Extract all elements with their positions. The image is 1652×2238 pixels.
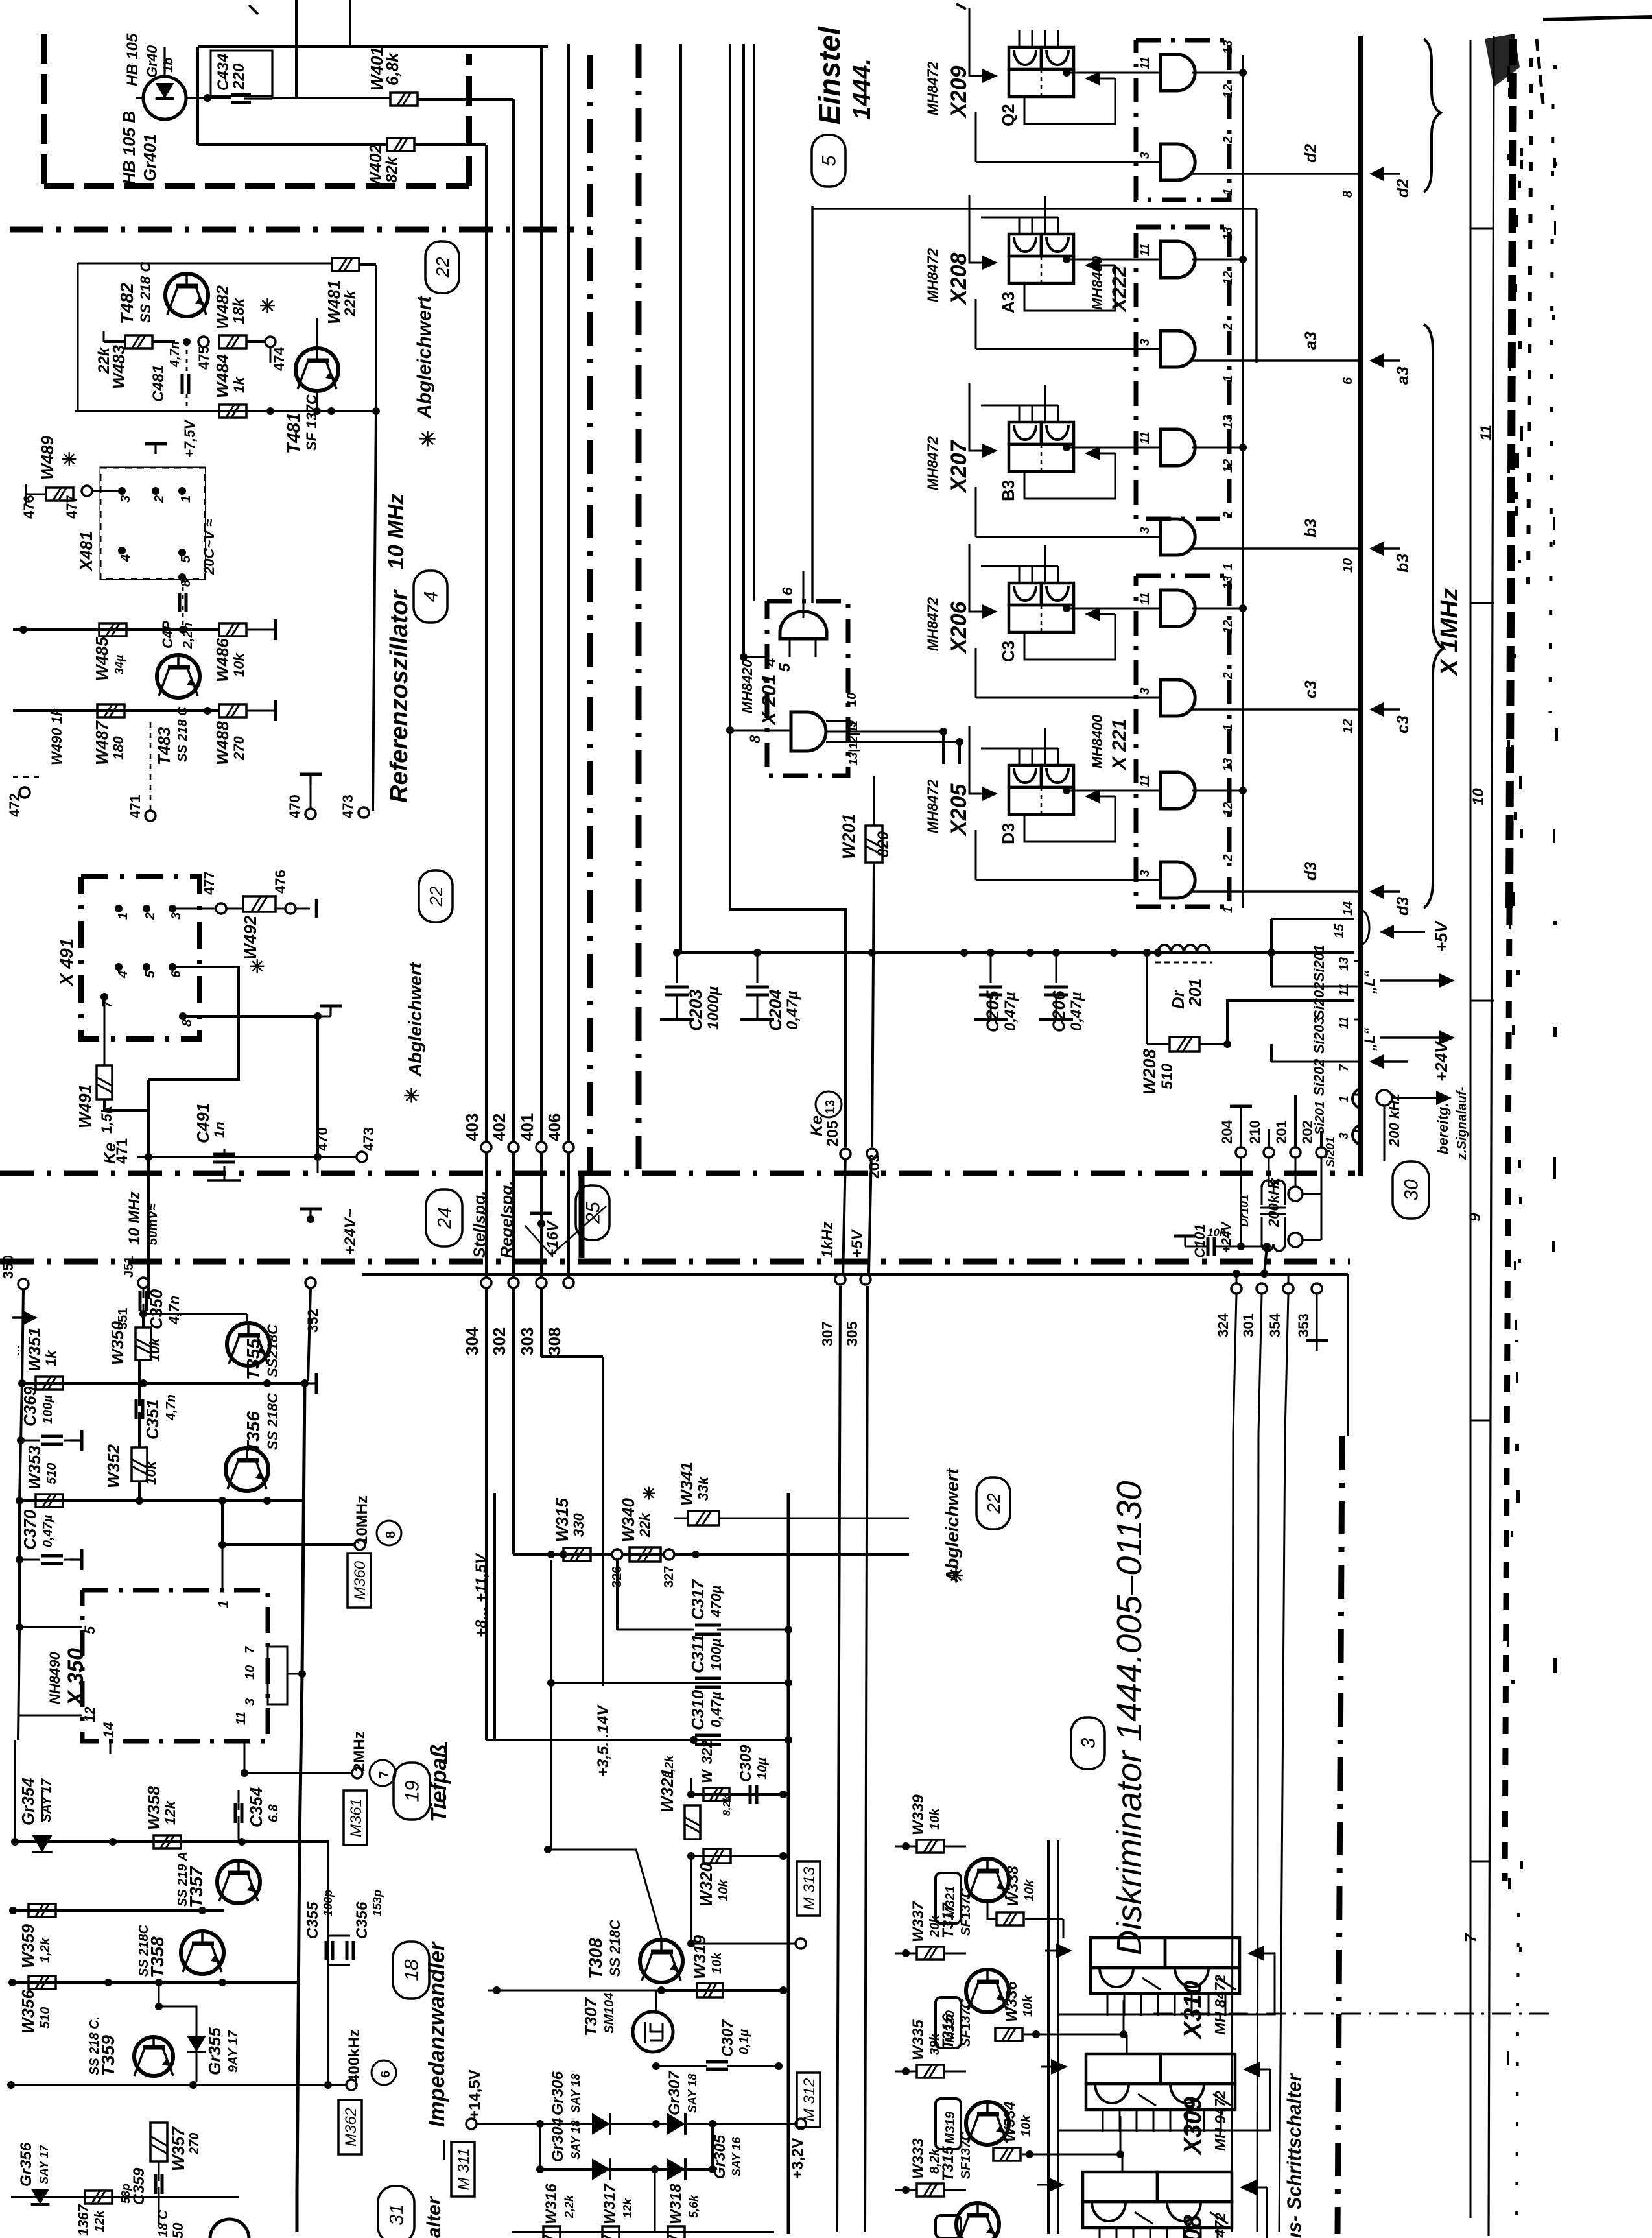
terminal 304: [462, 1278, 491, 1355]
diode Gr306: [549, 2071, 610, 2135]
svg-text:T482: T482: [117, 283, 137, 324]
svg-text:Gr401: Gr401: [140, 134, 159, 182]
label C355 100p: [304, 1890, 335, 1939]
svg-text:MH 9472: MH 9472: [1212, 2090, 1229, 2151]
resistor W318: [667, 2184, 700, 2238]
svg-text:82k: 82k: [383, 156, 401, 183]
resistor W319: [697, 1983, 723, 1997]
svg-text:SS 218 C: SS 218 C: [137, 261, 154, 323]
svg-text:W485: W485: [92, 637, 112, 681]
svg-text:M362: M362: [342, 2108, 360, 2147]
frame tick a: [1470, 228, 1494, 230]
svg-text:3: 3: [243, 1698, 257, 1706]
svg-text:10k: 10k: [1022, 1879, 1037, 1901]
wire 10MHz riser: [147, 1080, 150, 1299]
svg-text:Gr355: Gr355: [205, 2027, 224, 2075]
svg-text:353: 353: [1295, 1313, 1312, 1337]
svg-text:205: 205: [824, 1121, 842, 1147]
resistor W489: [26, 484, 73, 505]
bus wire W201/203/305: [865, 776, 874, 2232]
label T482 SS218C: [117, 261, 154, 324]
wire vertical x305: [196, 47, 199, 145]
svg-text:19: 19: [402, 1780, 423, 1802]
arrow b3: [1369, 542, 1412, 573]
wire +8V riser: [493, 1493, 496, 1740]
svg-text:0,47µ: 0,47µ: [41, 1514, 55, 1547]
svg-text:+5V: +5V: [849, 1229, 866, 1258]
svg-text:W316: W316: [543, 2184, 560, 2224]
svg-text:301: 301: [1240, 1313, 1257, 1337]
gate pair unit c3: [976, 575, 1360, 733]
svg-text:bereitg.: bereitg.: [1435, 1103, 1451, 1154]
svg-text:J51: J51: [122, 1256, 136, 1278]
svg-text:X 201: X 201: [759, 674, 780, 726]
svg-text:X207: X207: [947, 440, 971, 494]
svg-text:C307: C307: [719, 2019, 737, 2057]
oval 22 bottom: [976, 1477, 1010, 1529]
svg-text:NH8490: NH8490: [47, 1652, 63, 1704]
svg-text:30: 30: [1401, 1179, 1422, 1201]
capacitor C355: [313, 1941, 333, 1982]
svg-text:X209: X209: [947, 66, 971, 119]
svg-text:10: 10: [845, 693, 859, 707]
terminal 401: [517, 1113, 547, 1152]
svg-text:303: 303: [517, 1327, 537, 1355]
svg-text:33k: 33k: [695, 1476, 711, 1501]
resistor W356: [29, 1976, 56, 1989]
Einstell box lines: [812, 206, 1257, 603]
label 472: [6, 777, 39, 817]
label MH8400 X221: [1089, 714, 1130, 771]
svg-text:22: 22: [432, 257, 453, 278]
svg-text:4: 4: [421, 591, 442, 602]
svg-text:8: 8: [1341, 190, 1355, 198]
+5V rail: [673, 949, 1354, 957]
ground right of W486: [246, 619, 276, 640]
flip-flop X209: [925, 8, 1115, 126]
svg-text:+24V: +24V: [1220, 1221, 1234, 1253]
resistor W333: [895, 2184, 966, 2196]
label Ke 471 mid: [100, 1138, 131, 1164]
label W341 33k: [677, 1462, 711, 1506]
arrow d3: [1369, 885, 1412, 916]
label 10MHz vert: [126, 1191, 160, 1245]
svg-text:HB 105 B: HB 105 B: [119, 111, 139, 185]
label X491: [56, 938, 77, 987]
capacitor C101: [1174, 1236, 1271, 1256]
svg-text:MH8472: MH8472: [925, 248, 941, 302]
svg-text:1n: 1n: [211, 1121, 228, 1138]
svg-text:0,1µ: 0,1µ: [737, 2029, 751, 2054]
frame tick d: [1470, 1420, 1491, 1422]
IC X350 box (dash-dot): [82, 1590, 268, 1741]
svg-text:307: 307: [819, 1322, 836, 1346]
svg-text:MH8420: MH8420: [739, 659, 755, 713]
svg-text:470µ: 470µ: [708, 1585, 724, 1618]
svg-text:...: ...: [8, 1344, 23, 1355]
capacitor C204: [740, 953, 774, 1019]
svg-text:10k: 10k: [928, 1808, 942, 1830]
svg-text:210: 210: [1247, 1120, 1263, 1144]
svg-text:MH8472: MH8472: [925, 61, 941, 115]
svg-text:d2: d2: [1394, 179, 1412, 198]
wire rail 3215: [7, 2081, 332, 2089]
label W356 510: [18, 1990, 53, 2034]
stub 7 +24V: [1271, 1044, 1360, 1071]
svg-text:C317: C317: [688, 1578, 707, 1620]
label W482 18k: [213, 285, 248, 329]
wire to top edge a: [295, 0, 298, 99]
svg-text:10k: 10k: [231, 652, 247, 677]
wire C434 to W401: [272, 51, 390, 98]
svg-text:2,2k: 2,2k: [563, 2195, 576, 2219]
terminal 473: [340, 794, 369, 818]
svg-text:M361: M361: [348, 1798, 365, 1837]
wire T307 drain: [655, 1990, 657, 2012]
terminal 402: [490, 1113, 519, 1152]
wire X201 out to X205: [848, 728, 963, 764]
svg-text:C491: C491: [193, 1103, 213, 1143]
label +7,5V: [182, 419, 198, 458]
svg-text:W: W: [699, 1768, 715, 1783]
capacitor C351: [136, 1360, 143, 1447]
svg-text:X205: X205: [947, 783, 971, 837]
frame line right inner: [1470, 40, 1472, 2218]
stub 11b: [1311, 1016, 1360, 1054]
label W492: [241, 916, 265, 977]
label +3,5..14V: [595, 1704, 612, 1777]
wire 202: [1299, 1120, 1327, 1194]
wire 354 down: [1279, 1433, 1285, 2232]
svg-text:402: 402: [490, 1113, 509, 1141]
svg-text:20C~V ≈: 20C~V ≈: [201, 519, 217, 575]
svg-text:SS218C: SS218C: [265, 1324, 281, 1377]
jack Si201: [1313, 1101, 1384, 1161]
svg-text:8: 8: [180, 1019, 195, 1027]
svg-text:a3: a3: [1302, 331, 1320, 350]
svg-text:10k: 10k: [1021, 1995, 1035, 2017]
label 20C~V: [201, 519, 217, 575]
svg-text:4,7n: 4,7n: [168, 341, 182, 368]
svg-text:12: 12: [1341, 719, 1355, 733]
label Gr354 SAY17: [18, 1778, 54, 1826]
oval 18: [393, 1942, 429, 1999]
stub 13 Si201: [1311, 945, 1360, 982]
svg-text:SAY 17: SAY 17: [40, 1778, 54, 1822]
wire W322 rail: [687, 1791, 787, 1798]
label C481 4,7n: [150, 341, 182, 402]
svg-text:3: 3: [1139, 870, 1152, 877]
label +8...+11,5V: [473, 1553, 490, 1637]
svg-text:475: 475: [196, 346, 212, 370]
capacitor C311: [695, 1678, 721, 1687]
oval 22 top: [425, 241, 459, 293]
wire oscillator lower rail: [13, 626, 219, 634]
svg-text:T357: T357: [186, 1866, 206, 1908]
crystal box X481 (dashed): [100, 468, 205, 579]
svg-text:308: 308: [545, 1327, 564, 1355]
svg-text:2: 2: [1221, 854, 1235, 862]
gate X2014 (up): [740, 571, 827, 661]
svg-text:X 221: X 221: [1109, 719, 1130, 771]
label C482 2,2n: [159, 621, 195, 649]
svg-text:W341: W341: [677, 1462, 696, 1506]
terminal 471: [127, 720, 156, 821]
wire pin8 route: [183, 1006, 342, 1020]
label T308 SS218C: [585, 1919, 623, 1979]
capacitor C203: [660, 953, 694, 1019]
svg-text:11: 11: [1139, 774, 1152, 787]
svg-text:3: 3: [1139, 152, 1152, 159]
wire lower rail 2: [13, 707, 219, 715]
svg-text:Impedanzwandler: Impedanzwandler: [425, 1941, 449, 2127]
label +24V~: [342, 1209, 359, 1255]
svg-text:9: 9: [1467, 1213, 1484, 1222]
module M320: [936, 1997, 961, 2048]
svg-text:4,7n: 4,7n: [164, 1394, 178, 1421]
arrow +5V: [1380, 920, 1451, 952]
svg-text:Ke: Ke: [808, 1115, 826, 1136]
label X481: [77, 531, 96, 572]
svg-text:476: 476: [21, 495, 37, 519]
wire C310 rail: [486, 1736, 792, 1744]
svg-text:5: 5: [143, 970, 158, 978]
terminal 477 and W489: [64, 486, 122, 519]
svg-text:10: 10: [1470, 788, 1487, 805]
label T358 SS218C: [137, 1924, 167, 1978]
resistor W482: [219, 335, 246, 348]
label 476: [21, 495, 37, 519]
oval 31: [378, 2186, 414, 2238]
gate group box X209 (dash-dot): [1136, 40, 1229, 200]
flip-flop X206: [925, 544, 1115, 662]
wire T308 collector: [544, 1846, 661, 1938]
svg-text:18k: 18k: [230, 297, 248, 324]
capacitor C491: [207, 1149, 241, 1180]
svg-text:W319: W319: [690, 1935, 709, 1979]
module M361: [344, 1791, 367, 1845]
long vertical x1900area: [1231, 1436, 1233, 2234]
svg-text:C356: C356: [353, 1901, 371, 1939]
label Abgleichwert top: [414, 295, 436, 451]
svg-text:Si203: Si203: [1311, 1017, 1327, 1054]
svg-text:8: 8: [384, 1531, 398, 1538]
label C206 0,47u: [1049, 990, 1085, 1032]
resistor W484: [219, 405, 246, 418]
label Dr101 200kHz: [1238, 1178, 1282, 1228]
svg-text:6: 6: [379, 2071, 393, 2078]
svg-text:6: 6: [169, 970, 183, 978]
wire bottom rail: [512, 2169, 774, 2232]
X350 pin14: [100, 1722, 117, 1754]
label W353 510: [25, 1446, 59, 1490]
label Abgleichwert bottom: [942, 1468, 964, 1587]
terminal 475: [196, 337, 212, 370]
svg-text:180: 180: [110, 736, 126, 760]
svg-text:+3,2V: +3,2V: [789, 2138, 807, 2179]
label W359 1,2k: [18, 1924, 53, 1968]
svg-text:MH8472: MH8472: [925, 779, 941, 833]
svg-text:C203: C203: [686, 989, 705, 1031]
svg-text:a3: a3: [1394, 366, 1412, 385]
label Schrittschalter: [1284, 2072, 1305, 2238]
svg-text:400kHz: 400kHz: [346, 2029, 363, 2083]
terminal 305: [844, 1274, 871, 1346]
svg-text:+8... +11,5V: +8... +11,5V: [473, 1553, 490, 1637]
svg-text:MH 8472: MH 8472: [1212, 1974, 1229, 2035]
wire rail 3057: [8, 1979, 298, 1986]
svg-text:4,7n: 4,7n: [166, 1296, 182, 1325]
svg-text:A3: A3: [998, 292, 1018, 313]
svg-text:201: 201: [1273, 1120, 1290, 1144]
svg-text:5: 5: [179, 555, 193, 563]
frame tick e: [1470, 1861, 1490, 1863]
svg-text:2: 2: [1221, 323, 1235, 331]
flip-flop X310: [1045, 1938, 1275, 2040]
label Diskriminator: [1110, 1481, 1149, 1955]
svg-text:Gr307: Gr307: [666, 2070, 683, 2115]
svg-text:10k: 10k: [710, 1952, 724, 1974]
asterisk Abgleichwert mid: [403, 870, 453, 1107]
label W337 20k: [910, 1901, 942, 1942]
transistor T314 partial: [956, 2203, 999, 2238]
wire C101 drop: [1260, 1246, 1268, 1278]
wire rail 3388: [11, 2085, 239, 2197]
connector box X491 (bold dash-dot): [81, 877, 200, 1039]
label W488 270: [213, 721, 247, 765]
diode Gr356: [18, 2142, 51, 2204]
svg-text:11: 11: [1139, 592, 1152, 605]
label Impedanzwandler: [425, 1790, 449, 2160]
label C310 0,47u: [688, 1689, 724, 1730]
svg-text:10: 10: [243, 1665, 257, 1680]
svg-text:3: 3: [119, 495, 133, 503]
svg-text:Q2: Q2: [998, 104, 1018, 126]
svg-text:M360: M360: [351, 1560, 369, 1600]
terminal 403: [462, 1113, 491, 1152]
svg-text:T307: T307: [581, 1997, 600, 2036]
svg-text:10k: 10k: [147, 1337, 163, 1362]
gate column bus: [1242, 55, 1244, 908]
svg-text:C4P: C4P: [159, 621, 176, 649]
thin dash-dot divider y3105: [1153, 2013, 1556, 2015]
label W320 10k: [696, 1863, 731, 1907]
resistor W350: [136, 1327, 151, 1360]
svg-text:10 MHz: 10 MHz: [384, 494, 408, 569]
wire W491 bottom: [104, 1099, 148, 1110]
label W489: [38, 436, 77, 480]
wire W315 rail: [551, 1551, 909, 1558]
resistor W337: [895, 1947, 966, 1960]
svg-text:20k: 20k: [928, 1915, 942, 1938]
capacitor C307: [652, 2062, 783, 2070]
module M319: [936, 2099, 961, 2149]
X481 pins: [118, 487, 193, 587]
wire X309 link: [1116, 2116, 1124, 2158]
module M312: [797, 2073, 820, 2127]
svg-text:W351: W351: [25, 1327, 44, 1372]
capacitor C317: [695, 1625, 792, 1634]
terminal 406: [545, 1113, 574, 1152]
svg-text:T355: T355: [243, 1339, 263, 1380]
wire emitter rail T355: [22, 1379, 305, 1387]
terminal 203: [866, 1149, 882, 1179]
resistor W481: [332, 258, 359, 271]
main rail x470: [297, 1383, 305, 2232]
capacitor C354: [235, 1790, 242, 1842]
oval 25: [576, 1185, 609, 1240]
svg-text:X208: X208: [947, 253, 971, 305]
label T357 SS219A: [176, 1851, 206, 1908]
arrow +24V: [1369, 1040, 1451, 1082]
wire 10MHz out: [218, 1541, 355, 1549]
label C350 4,7n: [147, 1289, 182, 1329]
wire rail 2946: [9, 1907, 224, 1914]
gate block X201 dash-dot box: [767, 601, 848, 776]
label C356 153p: [353, 1890, 384, 1939]
transformer Dr101: [1260, 1180, 1286, 1251]
svg-text:8: 8: [747, 735, 763, 743]
label W335 39k: [910, 2019, 942, 2060]
resistor W401: [390, 93, 418, 106]
svg-text:W318: W318: [667, 2184, 685, 2224]
svg-text:327: 327: [662, 1566, 676, 1588]
svg-text:W483: W483: [109, 345, 128, 389]
label W484 1k: [213, 354, 247, 398]
svg-text:T483: T483: [154, 726, 174, 765]
svg-text:+14,5V: +14,5V: [466, 2069, 484, 2119]
svg-text:W208: W208: [1140, 1049, 1159, 1095]
svg-text:W356: W356: [18, 1990, 38, 2034]
oval 19: [394, 1763, 430, 1820]
section border dash-dot y1807 (mid): [0, 1171, 1355, 1176]
svg-text:Gr304: Gr304: [549, 2118, 567, 2162]
svg-text:0,47µ: 0,47µ: [1002, 992, 1019, 1031]
label C434 220: [215, 54, 248, 91]
svg-text:10k: 10k: [716, 1879, 731, 1901]
circle 6: [372, 2060, 396, 2085]
svg-text:+5V: +5V: [1432, 920, 1451, 952]
label W487 180: [92, 720, 126, 765]
svg-text:MH8400: MH8400: [1089, 714, 1105, 768]
svg-text:50: 50: [170, 2222, 186, 2238]
svg-text:M 312: M 312: [801, 2078, 818, 2122]
svg-text:SAY 18: SAY 18: [686, 2074, 699, 2113]
svg-text:T356: T356: [243, 1411, 263, 1453]
section border dash-dot vertical x910: [582, 55, 590, 1258]
wire T481 connections: [250, 318, 321, 415]
wire W402 rail: [198, 143, 387, 146]
ground 352: [300, 1209, 322, 1223]
flip-flop X308: [1037, 2172, 1267, 2238]
label 22k W483: [95, 345, 128, 389]
svg-text:W486: W486: [213, 638, 232, 682]
terminal 354: [1267, 1274, 1293, 1433]
capacitor C370: [19, 1549, 82, 1570]
svg-text:39k: 39k: [928, 2033, 942, 2055]
svg-text:Si202: Si202: [1311, 982, 1327, 1019]
svg-text:T308: T308: [585, 1938, 606, 1979]
label W402 82k: [366, 144, 401, 188]
svg-text:SS 218 C: SS 218 C: [176, 706, 190, 762]
svg-text:270: 270: [231, 736, 247, 761]
transistor T315: [939, 2102, 1009, 2182]
wire 473 riser: [327, 407, 376, 811]
wire W401 to bus: [418, 98, 513, 101]
capacitor C481: [182, 342, 189, 411]
svg-text:C351: C351: [143, 1399, 162, 1440]
svg-text:6: 6: [1341, 377, 1355, 385]
